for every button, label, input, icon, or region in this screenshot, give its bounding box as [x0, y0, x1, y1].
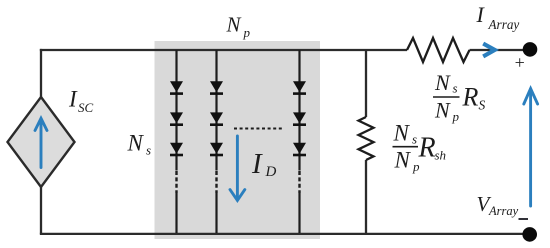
diode D1a: [170, 81, 183, 92]
wire: top rail from current source to Rs: [40, 49, 407, 51]
wire: column Np upper segment: [298, 50, 300, 171]
svg-text:p: p: [243, 25, 251, 40]
wire: column Np continuation dashes: [298, 171, 300, 193]
svg-text:S: S: [479, 98, 486, 113]
label ISC: [68, 87, 94, 116]
wire: column 2 continuation dashes: [215, 171, 217, 193]
svg-text:D: D: [265, 164, 277, 180]
diode D3a: [293, 81, 306, 92]
diode D3b: [293, 112, 306, 123]
diode current ID blue down arrow: [230, 136, 245, 200]
ellipsis dashed line between string 2 and string Np: [234, 128, 283, 130]
svg-text:s: s: [453, 81, 458, 96]
array current IArray blue arrow chevron: [483, 44, 495, 57]
value label (Ns/Np)Rsh: [393, 121, 447, 175]
svg-text:s: s: [146, 143, 151, 158]
wire: left leg, current source to bottom rail: [40, 187, 42, 234]
svg-text:I: I: [476, 2, 486, 27]
label Np (parallel-string count): [226, 12, 251, 40]
diode string column 2: [210, 50, 223, 233]
diode D1c: [170, 143, 183, 154]
diode string column 1: [170, 50, 183, 233]
minus sign at negative terminal: [519, 218, 529, 220]
svg-text:Array: Array: [488, 204, 519, 218]
diode D2b: [210, 112, 223, 123]
diode string column Np: [293, 50, 306, 233]
node: positive output terminal: [523, 42, 538, 57]
PV module shaded box: [155, 41, 321, 239]
label VArray: [477, 192, 519, 218]
current source ISC blue up arrow: [35, 118, 47, 167]
wire: column 1 continuation dashes: [175, 171, 177, 193]
wire: column 1 lower segment: [175, 193, 177, 233]
svg-text:N: N: [434, 97, 451, 122]
diode D2c: [210, 143, 223, 154]
wire: shunt branch lower segment: [365, 160, 367, 233]
label Ns (series-cell count): [127, 131, 152, 158]
label IArray: [476, 2, 520, 32]
svg-text:N: N: [434, 70, 451, 95]
svg-text:I: I: [68, 87, 78, 112]
diode D1b: [170, 112, 183, 123]
resistor Rs (series, horizontal zigzag): [407, 38, 470, 62]
svg-text:R: R: [462, 83, 479, 112]
svg-text:R: R: [418, 133, 436, 164]
diode D3c: [293, 143, 306, 154]
svg-text:SC: SC: [78, 100, 94, 115]
node: negative output terminal: [522, 227, 537, 242]
wire: column 1 upper segment: [175, 50, 177, 171]
wire: column Np lower segment: [298, 193, 300, 233]
wire: column 2 upper segment: [215, 50, 217, 171]
label ID: [251, 148, 277, 180]
svg-text:N: N: [127, 131, 145, 156]
svg-text:N: N: [226, 12, 242, 36]
wire: left leg, top rail to current source: [40, 49, 42, 97]
svg-text:p: p: [452, 109, 460, 124]
svg-text:s: s: [412, 132, 417, 147]
svg-text:N: N: [393, 121, 411, 146]
resistor Rsh (shunt, vertical zigzag): [359, 117, 374, 160]
svg-text:sh: sh: [435, 147, 447, 162]
array voltage VArray blue up arrow: [524, 89, 538, 206]
diode D2a: [210, 81, 223, 92]
wire: top rail from Rs to positive terminal: [470, 49, 524, 51]
svg-text:I: I: [251, 148, 263, 180]
wire: bottom rail: [40, 233, 530, 235]
svg-text:Array: Array: [488, 17, 520, 32]
current source ISC (diamond symbol): [8, 97, 75, 187]
svg-text:N: N: [394, 147, 412, 172]
wire: shunt branch upper segment: [365, 50, 367, 117]
value label (Ns/Np)Rs: [433, 70, 486, 124]
wire: column 2 lower segment: [215, 193, 217, 233]
svg-text:+: +: [514, 52, 526, 72]
